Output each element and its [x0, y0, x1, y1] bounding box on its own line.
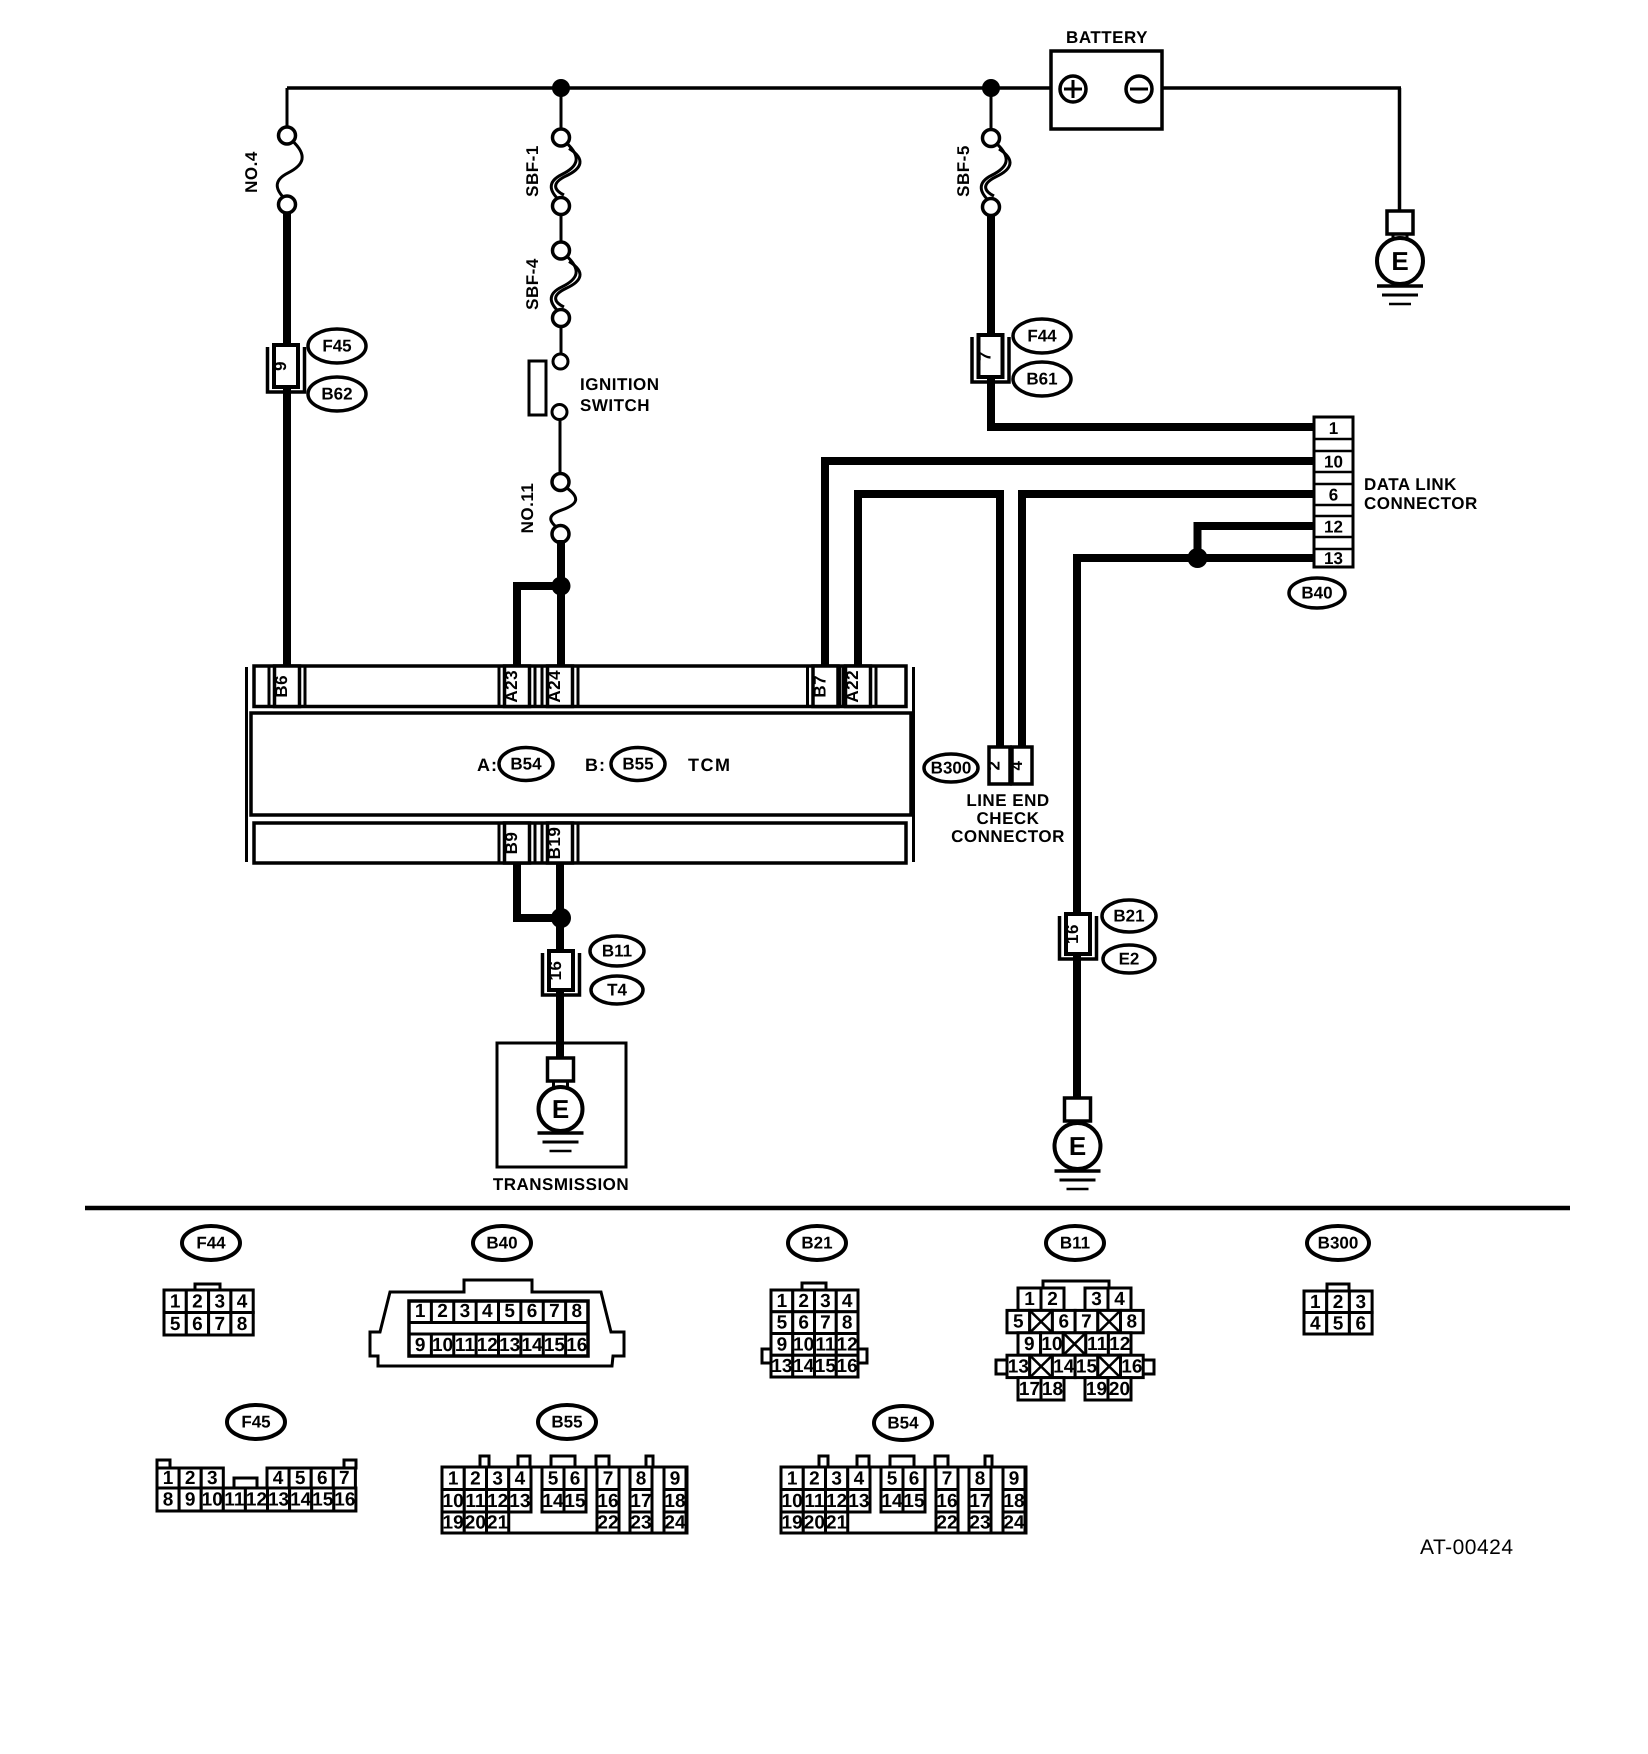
svg-text:A24: A24	[545, 670, 564, 703]
svg-text:6: 6	[1329, 486, 1338, 505]
wire: DLC pin 12 jog down to pin 13 wire (thick)	[1198, 526, 1315, 558]
svg-text:5: 5	[777, 1313, 788, 1334]
svg-text:1: 1	[1024, 1289, 1035, 1310]
TCM pin B19	[548, 823, 573, 863]
svg-text:B7: B7	[811, 675, 830, 698]
svg-text:16: 16	[566, 1335, 587, 1356]
svg-text:12: 12	[1109, 1334, 1130, 1355]
TCM pin B9	[505, 823, 530, 863]
svg-text:12: 12	[246, 1490, 267, 1511]
svg-text:20: 20	[1109, 1379, 1130, 1400]
svg-text:9: 9	[415, 1335, 426, 1356]
svg-text:B40: B40	[486, 1234, 517, 1253]
svg-text:14: 14	[290, 1490, 312, 1511]
svg-text:24: 24	[1003, 1513, 1025, 1534]
svg-text:20: 20	[804, 1513, 825, 1534]
wire: branch to TCM pin A23 (thick)	[517, 586, 561, 667]
connector view B54: 24-pin	[819, 1456, 828, 1468]
svg-text:8: 8	[237, 1314, 248, 1335]
svg-text:10: 10	[793, 1334, 814, 1355]
wire: SBF-5 through connector 7 to DLC pin 1 (thick)	[991, 211, 1314, 427]
svg-text:8: 8	[975, 1468, 986, 1489]
svg-text:15: 15	[903, 1491, 925, 1512]
svg-text:13: 13	[771, 1356, 792, 1377]
svg-text:3: 3	[1091, 1289, 1102, 1310]
svg-text:21: 21	[487, 1513, 509, 1534]
svg-text:2: 2	[1047, 1289, 1058, 1310]
svg-text:10: 10	[202, 1490, 223, 1511]
oval B300 (connector view)	[1307, 1226, 1369, 1260]
svg-text:2: 2	[437, 1301, 448, 1322]
svg-text:BATTERY: BATTERY	[1066, 28, 1148, 47]
svg-text:10: 10	[432, 1335, 453, 1356]
svg-text:5: 5	[504, 1301, 515, 1322]
svg-text:2: 2	[985, 761, 1004, 771]
svg-text:16: 16	[936, 1491, 957, 1512]
svg-text:3: 3	[214, 1291, 225, 1312]
svg-text:6: 6	[909, 1468, 920, 1489]
svg-text:F44: F44	[1027, 327, 1057, 346]
connector view F45: 16-pin	[157, 1460, 170, 1468]
svg-text:13: 13	[1324, 549, 1343, 568]
svg-text:23: 23	[969, 1513, 990, 1534]
svg-text:NO.11: NO.11	[518, 483, 537, 534]
oval B55 (connector view)	[538, 1405, 596, 1439]
fuse NO.4	[277, 141, 302, 201]
svg-text:11: 11	[455, 1335, 476, 1356]
battery negative terminal	[1126, 76, 1152, 102]
svg-text:A23: A23	[502, 670, 521, 703]
wire: NO.11 down to TCM pin A24 (thick)	[557, 540, 565, 667]
svg-text:LINE END: LINE END	[966, 791, 1049, 810]
svg-text:F45: F45	[322, 337, 351, 356]
svg-text:B40: B40	[1301, 584, 1332, 603]
svg-text:19: 19	[782, 1513, 803, 1534]
fuse SBF-5 (fusible link)	[981, 143, 1006, 202]
oval B40	[1289, 578, 1345, 608]
svg-text:6: 6	[527, 1301, 538, 1322]
wire: bus drop to fuse SBF-5	[990, 88, 993, 131]
svg-text:16: 16	[1063, 924, 1082, 944]
svg-text:2: 2	[470, 1468, 481, 1489]
oval T4	[591, 976, 643, 1004]
connector view F44: 2x4 cells	[195, 1284, 220, 1291]
svg-text:13: 13	[268, 1490, 289, 1511]
line end check connector B300 pin 4	[1012, 747, 1032, 784]
TCM module (A: B54, B: B55)	[245, 667, 248, 862]
oval B21 (connector view)	[788, 1226, 846, 1260]
node: bus junction above SBF-5	[982, 79, 1000, 97]
svg-text:13: 13	[509, 1491, 530, 1512]
svg-text:2: 2	[798, 1291, 809, 1312]
svg-text:4: 4	[237, 1291, 248, 1312]
svg-text:16: 16	[546, 961, 565, 981]
svg-text:12: 12	[487, 1491, 508, 1512]
svg-text:13: 13	[499, 1335, 520, 1356]
wire: main battery bus (top)	[287, 86, 1062, 90]
oval B54 (connector view)	[874, 1406, 932, 1440]
svg-text:B11: B11	[1060, 1234, 1090, 1253]
wire: SBF-4 to ignition switch	[560, 326, 563, 356]
oval B11 (connector view)	[1046, 1226, 1104, 1260]
svg-text:TCM: TCM	[688, 755, 732, 775]
svg-text:E: E	[552, 1094, 569, 1124]
svg-text:CONNECTOR: CONNECTOR	[951, 827, 1065, 846]
svg-text:1: 1	[448, 1468, 459, 1489]
svg-text:7: 7	[549, 1301, 560, 1322]
oval B11	[590, 936, 644, 966]
svg-text:22: 22	[597, 1513, 618, 1534]
wire: TCM pin B19 down through connector 16 to transmission (thick)	[556, 863, 564, 1062]
svg-text:23: 23	[630, 1513, 651, 1534]
line end check connector B300 pin 2	[989, 747, 1010, 784]
oval E2	[1103, 945, 1155, 973]
svg-text:CONNECTOR: CONNECTOR	[1364, 494, 1478, 513]
svg-text:1: 1	[415, 1301, 426, 1322]
connector 9 (F45/B62) on B6 wire	[268, 347, 305, 392]
svg-text:17: 17	[1019, 1379, 1040, 1400]
svg-text:9: 9	[777, 1334, 788, 1355]
connector 16 (B11/T4) on transmission ground wire	[543, 953, 580, 995]
TCM pin B6	[275, 666, 300, 707]
svg-text:16: 16	[837, 1356, 858, 1377]
svg-text:15: 15	[1076, 1356, 1098, 1377]
connector view B21: 4x4 cells	[802, 1283, 826, 1290]
wire: TCM pin B9 branch to B19 wire (thick)	[517, 863, 560, 918]
svg-text:17: 17	[630, 1491, 651, 1512]
TCM pin B7	[813, 666, 838, 707]
svg-text:15: 15	[564, 1491, 586, 1512]
node: junction of pin 12 and pin 13 wires	[1188, 548, 1208, 568]
svg-text:SWITCH: SWITCH	[580, 396, 650, 415]
svg-text:3: 3	[460, 1301, 471, 1322]
svg-text:7: 7	[820, 1313, 831, 1334]
oval F44	[1013, 319, 1071, 353]
oval F45	[308, 329, 366, 363]
svg-text:15: 15	[544, 1335, 566, 1356]
wire: TCM pin B7 to DLC pin 10 (thick)	[825, 461, 1314, 667]
svg-text:6: 6	[798, 1313, 809, 1334]
svg-text:2: 2	[1333, 1292, 1344, 1313]
svg-text:6: 6	[192, 1314, 203, 1335]
svg-text:3: 3	[831, 1468, 842, 1489]
wire: TCM pin A22 to line end check pin 2 (thick)	[858, 494, 1000, 747]
svg-text:T4: T4	[607, 981, 627, 1000]
svg-text:8: 8	[1127, 1312, 1138, 1333]
battery positive terminal	[1060, 76, 1086, 102]
svg-text:SBF-4: SBF-4	[523, 258, 542, 310]
svg-text:8: 8	[636, 1468, 647, 1489]
connector 7 (F44/B61) on SBF-5 wire	[972, 337, 1009, 382]
svg-text:9: 9	[185, 1490, 196, 1511]
svg-text:6: 6	[570, 1468, 581, 1489]
node: junction below B19	[551, 908, 571, 928]
oval B61	[1013, 362, 1071, 396]
svg-text:12: 12	[477, 1335, 498, 1356]
fuse SBF-4 (fusible link)	[551, 256, 576, 314]
svg-text:4: 4	[482, 1301, 493, 1322]
svg-text:5: 5	[295, 1468, 306, 1489]
wire: NO.4 fuse to TCM pin B6 (thick)	[283, 208, 291, 667]
oval B62	[308, 377, 366, 411]
svg-text:22: 22	[936, 1513, 957, 1534]
svg-text:B61: B61	[1026, 370, 1057, 389]
svg-text:12: 12	[837, 1334, 858, 1355]
node: junction above A24	[552, 577, 571, 596]
svg-text:16: 16	[597, 1491, 618, 1512]
svg-text:9: 9	[1009, 1468, 1020, 1489]
svg-text:10: 10	[443, 1491, 464, 1512]
svg-text:4: 4	[854, 1468, 865, 1489]
svg-text:CHECK: CHECK	[977, 809, 1040, 828]
ground E at battery negative	[1387, 211, 1413, 234]
data link connector B40 (pins 1,10,6,12,13)	[1314, 417, 1353, 567]
oval B300	[924, 754, 978, 782]
svg-text:14: 14	[793, 1356, 815, 1377]
svg-text:7: 7	[339, 1468, 350, 1489]
svg-text:13: 13	[848, 1491, 869, 1512]
wire: bus drop to fuse NO.4	[286, 88, 289, 128]
svg-text:6: 6	[317, 1468, 328, 1489]
svg-text:1: 1	[1329, 419, 1338, 438]
svg-text:4: 4	[1007, 760, 1026, 770]
svg-text:B11: B11	[602, 942, 632, 961]
svg-text:IGNITION: IGNITION	[580, 375, 660, 394]
svg-text:TRANSMISSION: TRANSMISSION	[493, 1175, 629, 1194]
wire: bus drop to fuse SBF-1	[560, 88, 563, 130]
svg-text:7: 7	[603, 1468, 614, 1489]
svg-text:9: 9	[670, 1468, 681, 1489]
svg-text:11: 11	[465, 1491, 486, 1512]
svg-text:7: 7	[942, 1468, 953, 1489]
svg-text:12: 12	[826, 1491, 847, 1512]
svg-text:12: 12	[1324, 518, 1343, 537]
svg-text:E: E	[1391, 246, 1408, 276]
svg-text:B9: B9	[502, 832, 521, 855]
svg-text:3: 3	[207, 1468, 218, 1489]
svg-text:DATA LINK: DATA LINK	[1364, 475, 1457, 494]
svg-text:11: 11	[815, 1334, 836, 1355]
svg-text:B:: B:	[585, 755, 606, 775]
svg-text:20: 20	[465, 1513, 486, 1534]
svg-text:SBF-5: SBF-5	[954, 145, 973, 197]
svg-text:8: 8	[163, 1490, 174, 1511]
oval F45 (connector view)	[227, 1405, 285, 1439]
svg-text:5: 5	[548, 1468, 559, 1489]
svg-text:1: 1	[170, 1291, 181, 1312]
transmission block with ground E	[497, 1043, 626, 1167]
ground E inside transmission	[548, 1058, 574, 1081]
connector view B11: 20-pin with blocked (X) cavities	[1043, 1281, 1109, 1288]
svg-text:4: 4	[1310, 1313, 1321, 1334]
svg-text:17: 17	[969, 1491, 990, 1512]
svg-text:1: 1	[1310, 1292, 1321, 1313]
svg-text:9: 9	[271, 361, 290, 371]
svg-text:A22: A22	[843, 670, 862, 703]
oval B40 (connector view)	[473, 1226, 531, 1260]
svg-text:NO.4: NO.4	[242, 151, 261, 193]
svg-text:10: 10	[782, 1491, 803, 1512]
svg-text:11: 11	[1087, 1334, 1108, 1355]
svg-text:4: 4	[515, 1468, 526, 1489]
svg-text:3: 3	[1355, 1292, 1366, 1313]
svg-text:2: 2	[192, 1291, 203, 1312]
fuse NO.11	[551, 487, 576, 530]
wire: lead inside transmission to terminal	[556, 1043, 564, 1060]
svg-text:5: 5	[887, 1468, 898, 1489]
wire: ignition switch to fuse NO.11	[559, 419, 562, 475]
svg-text:18: 18	[664, 1491, 685, 1512]
svg-text:F44: F44	[196, 1234, 226, 1253]
svg-text:1: 1	[787, 1468, 798, 1489]
svg-text:6: 6	[1058, 1312, 1069, 1333]
svg-text:19: 19	[443, 1513, 464, 1534]
svg-text:B21: B21	[801, 1234, 832, 1253]
svg-text:B21: B21	[1113, 907, 1144, 926]
svg-text:B55: B55	[551, 1413, 582, 1432]
svg-text:1: 1	[777, 1291, 788, 1312]
svg-text:5: 5	[1333, 1313, 1344, 1334]
svg-text:AT-00424: AT-00424	[1420, 1536, 1514, 1559]
oval F44 (connector view)	[182, 1226, 240, 1260]
svg-text:E2: E2	[1119, 950, 1140, 969]
svg-text:19: 19	[1086, 1379, 1107, 1400]
svg-text:E: E	[1069, 1131, 1086, 1161]
wire: line end check pin 4 to DLC pin 6 (thick)	[1022, 494, 1314, 747]
svg-text:B62: B62	[321, 385, 352, 404]
TCM pin A23	[505, 666, 530, 707]
svg-text:10: 10	[1324, 453, 1343, 472]
svg-text:B300: B300	[1318, 1234, 1359, 1253]
fuse SBF-1 (fusible link)	[551, 143, 576, 202]
node: bus junction above SBF-1	[552, 79, 570, 97]
svg-text:8: 8	[842, 1313, 853, 1334]
svg-text:4: 4	[1114, 1289, 1125, 1310]
svg-text:4: 4	[273, 1468, 284, 1489]
svg-text:5: 5	[170, 1314, 181, 1335]
svg-text:4: 4	[842, 1291, 853, 1312]
svg-text:7: 7	[214, 1314, 225, 1335]
svg-text:18: 18	[1042, 1379, 1063, 1400]
svg-text:7: 7	[976, 351, 995, 361]
svg-text:16: 16	[334, 1490, 355, 1511]
svg-text:2: 2	[809, 1468, 820, 1489]
oval B21	[1102, 900, 1156, 932]
separator line between schematic and connector views	[85, 1206, 1570, 1211]
svg-text:A:: A:	[477, 755, 498, 775]
svg-text:15: 15	[312, 1490, 334, 1511]
svg-text:18: 18	[1003, 1491, 1024, 1512]
svg-text:6: 6	[1355, 1313, 1366, 1334]
svg-text:16: 16	[1121, 1356, 1142, 1377]
svg-text:14: 14	[542, 1491, 564, 1512]
svg-text:B6: B6	[272, 675, 291, 698]
ignition switch	[529, 361, 546, 415]
svg-text:15: 15	[815, 1356, 837, 1377]
svg-text:10: 10	[1041, 1334, 1062, 1355]
svg-text:9: 9	[1024, 1334, 1035, 1355]
svg-text:8: 8	[572, 1301, 583, 1322]
svg-text:7: 7	[1081, 1312, 1092, 1333]
svg-text:11: 11	[804, 1491, 825, 1512]
svg-text:B19: B19	[545, 827, 564, 860]
svg-text:2: 2	[185, 1468, 196, 1489]
connector view B300: 2x3 cells	[1327, 1284, 1349, 1291]
svg-text:1: 1	[163, 1468, 174, 1489]
svg-text:14: 14	[521, 1335, 543, 1356]
wire: DLC pin 13 to connector 16 / ground E2 (thick)	[1077, 558, 1314, 1098]
svg-text:11: 11	[224, 1490, 245, 1511]
svg-text:B55: B55	[622, 755, 653, 774]
ground E2 symbol	[1065, 1098, 1091, 1121]
TCM pin A22	[846, 666, 871, 707]
svg-text:SBF-1: SBF-1	[523, 145, 542, 197]
wire: SBF-1 to SBF-4	[560, 210, 563, 246]
connector view B40: outline with 2x8 cells	[370, 1280, 624, 1366]
svg-text:14: 14	[1053, 1356, 1075, 1377]
wire: battery negative lead down to ground E	[1398, 88, 1402, 212]
svg-text:B300: B300	[931, 759, 972, 778]
svg-text:14: 14	[881, 1491, 903, 1512]
svg-text:F45: F45	[241, 1413, 270, 1432]
svg-text:3: 3	[820, 1291, 831, 1312]
svg-text:21: 21	[826, 1513, 848, 1534]
connector view B55: 24-pin	[480, 1456, 489, 1468]
svg-text:24: 24	[664, 1513, 686, 1534]
TCM pin A24	[548, 666, 573, 707]
svg-text:B54: B54	[887, 1414, 919, 1433]
connector 16 (B21/E2) on DLC pin 13 ground wire	[1060, 916, 1097, 959]
svg-text:5: 5	[1013, 1312, 1024, 1333]
svg-text:13: 13	[1008, 1356, 1029, 1377]
svg-text:3: 3	[492, 1468, 503, 1489]
svg-text:B54: B54	[510, 755, 542, 774]
